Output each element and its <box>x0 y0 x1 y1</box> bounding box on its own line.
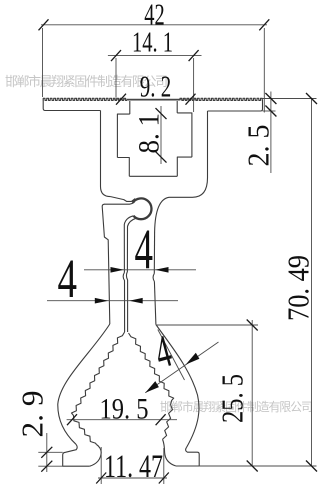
tick 42 right <box>259 19 269 30</box>
tick 2.9 bottom <box>41 461 52 472</box>
tick 8.1 bottom <box>156 152 167 163</box>
svg-text:9. 2: 9. 2 <box>140 68 172 103</box>
screw channel slit inner line <box>126 218 135 332</box>
dim 70.49 dimension line vertical <box>311 99 313 467</box>
neck left outer wall <box>102 204 110 324</box>
dim 25.5 dimension line vertical <box>251 320 253 466</box>
arrow lower-4 right <box>129 298 143 304</box>
neck right outer wall upper <box>153 232 155 274</box>
arrow upper-4 left <box>111 267 125 273</box>
svg-text:2. 5: 2. 5 <box>240 125 275 167</box>
dim 2.5 dimension line vertical <box>270 92 272 174</box>
dim 25.5 top extension line <box>156 324 258 326</box>
arrow diagonal-4 upper <box>186 353 200 365</box>
profile top plate left end edge <box>43 100 100 111</box>
profile top plate serrated surface right segment <box>180 98 263 100</box>
boss right outer wall with bottom fillet <box>193 111 208 197</box>
arrow upper-4 right <box>155 267 169 273</box>
body right inner zigzag wall <box>129 333 174 440</box>
dim diagonal-4 extension line through text <box>158 330 185 381</box>
dim 70.49 bottom extension line <box>199 465 316 467</box>
dim 8.1 dimension line vertical <box>160 106 162 164</box>
tick 14.1 left <box>111 50 121 61</box>
svg-text:25. 5: 25. 5 <box>215 374 250 423</box>
cavity lower-left step and wall <box>117 158 129 177</box>
tick 70.49 top <box>306 93 317 104</box>
dim 11.47 dimension line <box>98 477 167 479</box>
svg-text:4: 4 <box>135 219 154 282</box>
tick 2.5 bottom <box>265 106 276 117</box>
dim 2.9 top extension line <box>38 451 62 453</box>
cavity upper-left shoulder <box>117 114 129 157</box>
dim 42 dimension line <box>41 24 267 26</box>
arrow diagonal-4 lower <box>145 381 159 393</box>
lip top line left of circle <box>111 197 136 202</box>
tick 70.49 bottom <box>306 461 317 472</box>
screw channel slit outer notch <box>123 273 124 333</box>
tick 2.5 top <box>265 93 276 104</box>
dim diagonal-4 dimension line <box>145 342 218 393</box>
body left inner zigzag wall <box>72 332 125 445</box>
dim 2.9 dimension line vertical <box>46 433 48 472</box>
cavity lower-right step and wall <box>177 157 192 176</box>
right foot outline <box>176 448 199 466</box>
tick 11.47 left <box>96 473 106 484</box>
left foot outline <box>63 444 90 466</box>
svg-text:2. 9: 2. 9 <box>15 391 50 438</box>
cavity slot opening left wall <box>129 101 131 114</box>
dim 19.5 dimension line <box>67 419 177 421</box>
body right inner wall bottom corner <box>163 440 176 467</box>
screw channel circle <box>133 198 152 219</box>
dim lower-4 dimension line <box>47 300 178 302</box>
tick 25.5 bottom <box>247 461 258 472</box>
dim 42 extension line left <box>42 28 44 97</box>
dim upper-4 dimension line <box>84 269 196 271</box>
body left outer S-curve wall <box>58 324 110 444</box>
tick 42 left <box>39 19 49 30</box>
tick 9.2 left <box>116 94 126 105</box>
tick 14.1 right <box>189 50 199 61</box>
boss left outer wall with bottom fillet <box>101 111 111 197</box>
screw channel slit outer line upper <box>124 216 133 273</box>
dim 11.47 extension line left <box>100 447 102 484</box>
body right outer S-curve wall <box>156 325 199 448</box>
dim 2.5 bottom extension line <box>263 110 276 112</box>
body left inner wall bottom corner <box>90 445 102 467</box>
neck right outer wall notch <box>153 274 154 282</box>
dim 42 extension line right <box>263 28 265 113</box>
tick 25.5 top <box>247 320 258 331</box>
tick 11.47 right <box>159 473 169 484</box>
profile top plate right end edge <box>208 100 263 111</box>
dim 14.1 dimension line <box>108 55 202 57</box>
profile top plate serrated surface left segment <box>43 98 127 100</box>
dim 2.5 top extension to 70.49 <box>263 98 317 100</box>
svg-text:70. 49: 70. 49 <box>281 255 316 321</box>
svg-text:4: 4 <box>58 248 78 309</box>
neck right outer wall lower <box>154 282 156 325</box>
svg-text:8. 1: 8. 1 <box>133 113 166 154</box>
tick 19.5 left <box>67 414 77 425</box>
tick 19.5 right <box>156 414 166 425</box>
dim 14.1 extension line left <box>115 58 117 98</box>
cavity slot opening right wall <box>176 101 178 113</box>
svg-text:11. 47: 11. 47 <box>104 449 163 485</box>
svg-text:14. 1: 14. 1 <box>132 28 173 59</box>
tick 8.1 top <box>156 108 167 119</box>
tick 2.9 top <box>41 447 52 458</box>
dim 14.1 extension line right <box>193 58 195 112</box>
profile top plate smooth middle edge over slot opening <box>127 99 180 101</box>
arrow lower-4 left <box>95 298 109 304</box>
boss bottom edge right of circle <box>155 197 193 232</box>
cavity bottom edge <box>129 175 177 177</box>
svg-text:19. 5: 19. 5 <box>100 392 149 425</box>
tick 9.2 right <box>186 94 196 105</box>
dim 2.9 bottom extension line <box>38 465 62 467</box>
dim 9.2 dimension line <box>113 98 198 100</box>
cavity upper-right shoulder <box>177 113 192 157</box>
dim 11.47 extension line right <box>163 448 165 484</box>
lip underside line <box>104 202 135 204</box>
